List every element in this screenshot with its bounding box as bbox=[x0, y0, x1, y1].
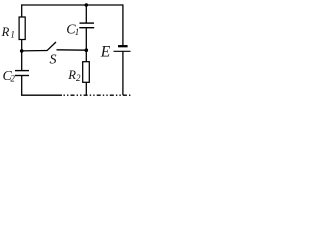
svg-text:S: S bbox=[50, 52, 57, 67]
capacitor C2 bottom plate bbox=[15, 75, 29, 77]
resistor R1 bbox=[19, 17, 25, 40]
node junction dot top of C1 branch bbox=[85, 3, 89, 7]
wire battery bottom lead bbox=[122, 51, 124, 95]
wire switch to node B bbox=[57, 49, 87, 51]
wire R1 top lead bbox=[21, 4, 23, 17]
wire R2 bottom lead bbox=[85, 82, 87, 95]
wire left vertical to C2 bbox=[21, 51, 23, 70]
switch S blade bbox=[47, 42, 56, 51]
svg-text:1: 1 bbox=[75, 27, 80, 37]
svg-text:2: 2 bbox=[10, 73, 15, 83]
wire C1 bottom lead bbox=[85, 28, 87, 51]
svg-text:R: R bbox=[67, 68, 76, 82]
svg-text:E: E bbox=[100, 43, 111, 60]
battery E long thin plate bbox=[114, 50, 131, 52]
wire bottom dash-dot boundary line bbox=[64, 94, 132, 96]
wire top bus bbox=[22, 4, 123, 6]
resistor R2 bbox=[83, 62, 90, 83]
wire R1 bottom lead bbox=[21, 40, 23, 52]
capacitor C1 top plate bbox=[80, 22, 95, 24]
wire C1 top lead bbox=[85, 5, 87, 23]
wire R2 top lead bbox=[85, 50, 87, 62]
svg-text:2: 2 bbox=[76, 73, 81, 83]
wire C2 bottom lead bbox=[21, 76, 23, 96]
capacitor C2 top plate bbox=[15, 70, 29, 72]
switch S left wire from node A bbox=[22, 50, 48, 52]
node A junction dot below R1 bbox=[20, 49, 24, 53]
svg-text:1: 1 bbox=[10, 30, 15, 40]
wire battery top lead bbox=[122, 4, 124, 45]
battery E short thick plate bbox=[118, 45, 128, 47]
capacitor C1 bottom plate bbox=[79, 27, 94, 29]
node B junction dot bbox=[85, 48, 89, 52]
wire bottom solid bbox=[21, 94, 62, 96]
svg-text:R: R bbox=[1, 25, 10, 39]
